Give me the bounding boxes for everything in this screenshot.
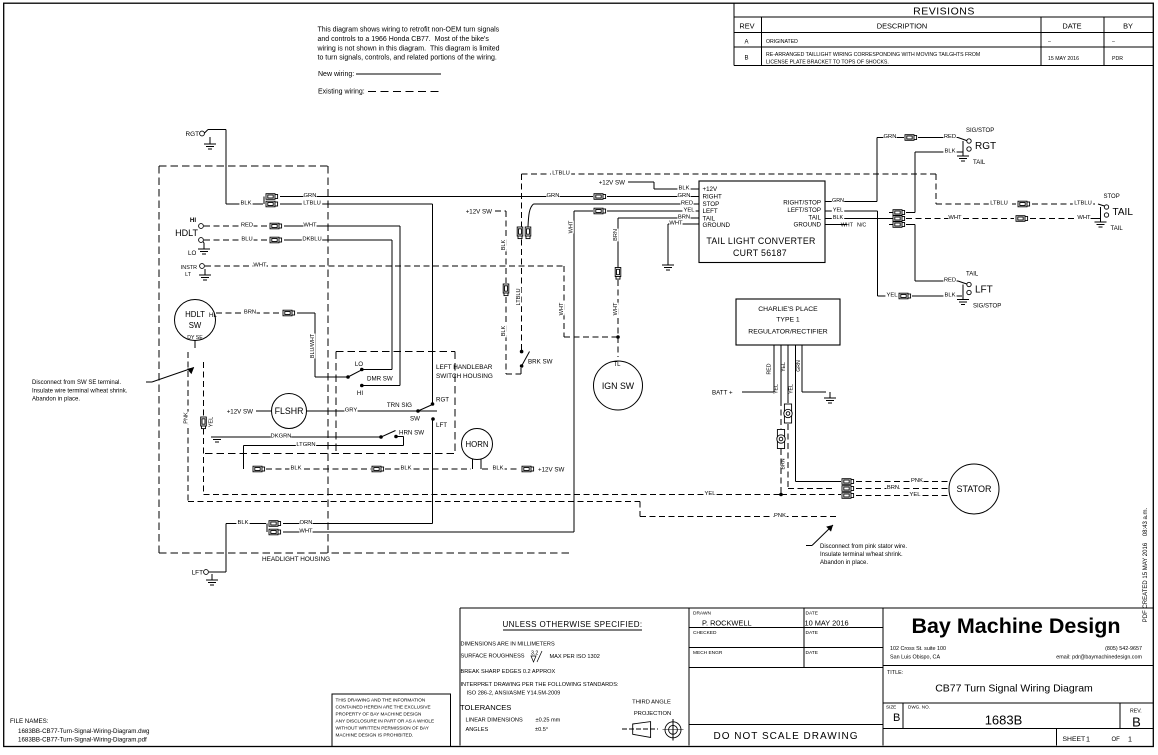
svg-text:SIG/STOP: SIG/STOP xyxy=(973,304,1001,310)
svg-text:LT: LT xyxy=(185,272,192,278)
svg-text:BLK: BLK xyxy=(833,215,844,221)
svg-text:Disconnect from pink stator wi: Disconnect from pink stator wire. xyxy=(820,544,907,550)
svg-text:DMR SW: DMR SW xyxy=(367,376,393,383)
svg-text:REGULATOR/RECTIFIER: REGULATOR/RECTIFIER xyxy=(748,329,828,336)
svg-text:CHARLIE'S PLACE: CHARLIE'S PLACE xyxy=(758,306,818,313)
svg-text:BRN: BRN xyxy=(887,485,899,491)
svg-text:MECH ENGR: MECH ENGR xyxy=(693,650,723,656)
svg-text:DATE: DATE xyxy=(806,650,818,656)
svg-text:BRN: BRN xyxy=(781,458,787,469)
svg-text:REV: REV xyxy=(739,21,754,30)
svg-text:RED: RED xyxy=(944,278,956,284)
svg-text:BATT +: BATT + xyxy=(712,390,733,397)
svg-text:TL: TL xyxy=(613,362,621,368)
svg-text:PNK: PNK xyxy=(183,412,189,424)
svg-text:BLK: BLK xyxy=(401,466,412,472)
svg-text:GRN: GRN xyxy=(796,360,802,372)
svg-text:HI: HI xyxy=(190,217,196,224)
svg-text:N/C: N/C xyxy=(857,223,866,229)
svg-text:10 MAY 2016: 10 MAY 2016 xyxy=(805,619,849,628)
svg-text:This diagram shows wiring to r: This diagram shows wiring to retrofit no… xyxy=(318,27,500,34)
svg-text:1683B: 1683B xyxy=(985,713,1023,728)
svg-text:and controls to a 1966 Honda C: and controls to a 1966 Honda CB77. Most … xyxy=(318,36,490,43)
svg-text:P. ROCKWELL: P. ROCKWELL xyxy=(702,619,752,628)
svg-text:±0.25 mm: ±0.25 mm xyxy=(536,718,561,724)
svg-text:REVISIONS: REVISIONS xyxy=(913,6,975,18)
svg-text:YEL: YEL xyxy=(774,384,780,394)
svg-text:TAIL: TAIL xyxy=(973,160,986,166)
svg-text:+12V SW: +12V SW xyxy=(538,467,564,474)
svg-text:LTGRN: LTGRN xyxy=(296,442,315,448)
svg-text:YEL: YEL xyxy=(910,492,922,498)
svg-text:TRN SIG: TRN SIG xyxy=(387,402,412,409)
svg-text:GROUND: GROUND xyxy=(794,222,822,229)
svg-text:WHT: WHT xyxy=(299,529,313,535)
svg-text:STOP: STOP xyxy=(703,201,720,208)
svg-text:ANGLES: ANGLES xyxy=(466,727,489,733)
svg-text:DY SE: DY SE xyxy=(187,335,203,341)
svg-text:MACHINE DESIGN IS PROHIBITED.: MACHINE DESIGN IS PROHIBITED. xyxy=(336,733,414,738)
svg-text:DKBLU: DKBLU xyxy=(302,237,321,243)
svg-text:DRAWN: DRAWN xyxy=(693,611,711,617)
svg-text:WHT: WHT xyxy=(613,302,619,315)
svg-text:HL: HL xyxy=(209,313,217,319)
svg-text:+12V: +12V xyxy=(703,186,718,193)
svg-text:YEL: YEL xyxy=(781,362,787,372)
svg-text:1: 1 xyxy=(1128,735,1132,744)
svg-text:WHT: WHT xyxy=(948,215,962,221)
svg-text:RED: RED xyxy=(241,223,253,229)
svg-text:+12V SW: +12V SW xyxy=(466,209,492,216)
svg-text:YEL: YEL xyxy=(684,208,696,214)
svg-text:CONTAINED HEREIN ARE THE EXCLU: CONTAINED HEREIN ARE THE EXCLUSIVE xyxy=(336,705,431,710)
svg-text:LFT: LFT xyxy=(975,285,993,296)
svg-text:THIS DRAWING AND THE INFORMATI: THIS DRAWING AND THE INFORMATION xyxy=(336,698,426,703)
svg-text:RED: RED xyxy=(681,201,693,207)
svg-text:IGN SW: IGN SW xyxy=(602,381,635,391)
svg-text:ISO 286-2, ANSI/ASME Y14.5M-20: ISO 286-2, ANSI/ASME Y14.5M-2009 xyxy=(467,691,561,697)
svg-text:SURFACE ROUGHNESS: SURFACE ROUGHNESS xyxy=(461,654,525,660)
svg-text:GRN: GRN xyxy=(678,193,691,199)
svg-text:CB77 Turn Signal Wiring Diagra: CB77 Turn Signal Wiring Diagram xyxy=(935,683,1093,695)
svg-text:B: B xyxy=(893,712,900,724)
svg-text:PROPERTY OF BAY MACHINE DESIGN: PROPERTY OF BAY MACHINE DESIGN xyxy=(336,712,422,717)
svg-text:+12V SW: +12V SW xyxy=(599,180,625,187)
svg-text:LTBLU: LTBLU xyxy=(990,201,1008,207)
svg-text:LEFT/STOP: LEFT/STOP xyxy=(787,207,821,214)
svg-text:1683BB-CB77-Turn-Signal-Wiring: 1683BB-CB77-Turn-Signal-Wiring-Diagram.p… xyxy=(18,737,147,744)
svg-text:DESCRIPTION: DESCRIPTION xyxy=(877,21,928,30)
svg-text:LFT: LFT xyxy=(436,422,447,429)
svg-text:1683BB-CB77-Turn-Signal-Wiring: 1683BB-CB77-Turn-Signal-Wiring-Diagram.d… xyxy=(18,728,150,735)
svg-text:BLK: BLK xyxy=(501,239,507,250)
svg-text:New wiring:: New wiring: xyxy=(318,71,354,78)
svg-text:BLK: BLK xyxy=(501,325,507,336)
svg-text:15 MAY 2016: 15 MAY 2016 xyxy=(1048,56,1079,62)
svg-text:FILE NAMES:: FILE NAMES: xyxy=(10,718,49,725)
svg-text:B: B xyxy=(1132,715,1141,730)
svg-text:TAIL: TAIL xyxy=(966,272,979,278)
svg-text:(805) 542-9657: (805) 542-9657 xyxy=(1105,646,1142,652)
svg-text:PDR: PDR xyxy=(1112,56,1123,62)
svg-text:WHT: WHT xyxy=(669,221,683,227)
svg-text:BLK: BLK xyxy=(241,201,252,207)
svg-text:WHT: WHT xyxy=(1077,215,1091,221)
svg-text:Disconnect from SW SE terminal: Disconnect from SW SE terminal. xyxy=(32,380,121,386)
svg-text:HRN SW: HRN SW xyxy=(399,430,424,437)
svg-text:STOP: STOP xyxy=(1104,194,1120,200)
svg-text:–: – xyxy=(1048,39,1051,45)
svg-text:HEADLIGHT HOUSING: HEADLIGHT HOUSING xyxy=(262,556,330,563)
svg-text:TAIL LIGHT CONVERTER: TAIL LIGHT CONVERTER xyxy=(706,236,815,246)
svg-text:–: – xyxy=(1112,39,1115,45)
svg-text:±0.5°: ±0.5° xyxy=(535,727,548,733)
svg-text:RE-ARRANGED TAILLIGHT WIRING C: RE-ARRANGED TAILLIGHT WIRING CORRESPONDI… xyxy=(766,52,980,58)
svg-text:WHT: WHT xyxy=(303,223,317,229)
svg-text:YEL: YEL xyxy=(789,384,795,394)
svg-text:LINEAR DIMENSIONS: LINEAR DIMENSIONS xyxy=(466,718,523,724)
svg-text:BREAK SHARP EDGES 0.2 APPROX: BREAK SHARP EDGES 0.2 APPROX xyxy=(461,669,556,675)
svg-text:HORN: HORN xyxy=(466,440,489,449)
svg-text:DKGRN: DKGRN xyxy=(271,434,292,440)
svg-text:SWITCH HOUSING: SWITCH HOUSING xyxy=(436,373,493,380)
svg-text:LEFT: LEFT xyxy=(703,208,718,215)
svg-text:PDF CREATED 15 MAY 2016 08:: PDF CREATED 15 MAY 2016 08:43 a.m. xyxy=(1143,507,1149,622)
svg-text:GRN: GRN xyxy=(304,193,317,199)
svg-text:PNK: PNK xyxy=(774,513,786,519)
svg-text:BLK: BLK xyxy=(945,293,956,299)
svg-text:1: 1 xyxy=(1086,735,1090,744)
svg-text:PROJECTION: PROJECTION xyxy=(634,711,671,717)
svg-text:BRK SW: BRK SW xyxy=(528,359,553,366)
svg-text:TAIL: TAIL xyxy=(808,215,821,222)
svg-text:CURT 56187: CURT 56187 xyxy=(733,248,787,258)
svg-text:ANY DISCLOSURE IN PART OR AS A: ANY DISCLOSURE IN PART OR AS A WHOLE xyxy=(336,719,435,724)
svg-text:YEL: YEL xyxy=(208,417,214,428)
svg-text:RED: RED xyxy=(767,363,773,374)
svg-text:YEL: YEL xyxy=(705,491,717,497)
svg-text:DATE: DATE xyxy=(806,611,818,617)
svg-text:MAX PER ISO 1302: MAX PER ISO 1302 xyxy=(550,654,600,660)
svg-text:102 Cross St. suite 100: 102 Cross St. suite 100 xyxy=(890,646,946,652)
svg-text:RGT: RGT xyxy=(975,141,996,152)
svg-text:FLSHR: FLSHR xyxy=(275,406,304,416)
svg-text:TAIL: TAIL xyxy=(1113,207,1134,218)
svg-text:WHT: WHT xyxy=(253,263,267,269)
svg-text:ORN: ORN xyxy=(300,520,313,526)
svg-text:WHT: WHT xyxy=(841,223,854,229)
svg-text:Insulate wire terminal w/heat: Insulate wire terminal w/heat shrink. xyxy=(32,389,128,395)
svg-text:GRN: GRN xyxy=(832,198,844,204)
svg-text:INSTR: INSTR xyxy=(181,265,197,271)
svg-text:Insulate terminal w/heat shrin: Insulate terminal w/heat shrink. xyxy=(820,552,903,558)
svg-text:LTBLU: LTBLU xyxy=(303,201,321,207)
svg-text:Abandon in place.: Abandon in place. xyxy=(820,560,868,566)
svg-text:SHEET: SHEET xyxy=(1063,736,1086,743)
svg-text:SIG/STOP: SIG/STOP xyxy=(966,128,994,134)
svg-text:GRN: GRN xyxy=(547,193,560,199)
svg-text:STATOR: STATOR xyxy=(956,484,992,494)
svg-text:DO NOT SCALE DRAWING: DO NOT SCALE DRAWING xyxy=(713,731,858,742)
svg-text:TITLE:: TITLE: xyxy=(887,670,903,676)
svg-text:YEL: YEL xyxy=(833,208,843,214)
svg-text:ORIGINATED: ORIGINATED xyxy=(766,39,798,45)
svg-text:GROUND: GROUND xyxy=(703,222,731,229)
svg-text:LTBLU: LTBLU xyxy=(552,171,570,177)
svg-text:RIGHT: RIGHT xyxy=(703,194,722,201)
svg-text:PNK: PNK xyxy=(911,478,923,484)
svg-text:LFT: LFT xyxy=(192,570,203,577)
svg-text:BLK: BLK xyxy=(238,520,249,526)
svg-text:Abandon in place.: Abandon in place. xyxy=(32,397,80,403)
svg-text:INTERPRET DRAWING PER THE FOLL: INTERPRET DRAWING PER THE FOLLOWING STAN… xyxy=(461,682,619,688)
svg-text:HDLT: HDLT xyxy=(185,310,205,319)
svg-text:B: B xyxy=(744,56,748,62)
svg-text:LO: LO xyxy=(355,361,363,368)
svg-text:RED: RED xyxy=(944,134,956,140)
svg-text:LO: LO xyxy=(188,250,196,257)
svg-text:BLK: BLK xyxy=(493,466,504,472)
svg-text:TYPE 1: TYPE 1 xyxy=(776,317,800,324)
svg-text:SIZE: SIZE xyxy=(886,705,896,710)
svg-text:DATE: DATE xyxy=(1062,21,1081,30)
svg-text:UNLESS OTHERWISE SPECIFIED:: UNLESS OTHERWISE SPECIFIED: xyxy=(502,620,642,629)
svg-text:DIMENSIONS ARE IN MILLIMETERS: DIMENSIONS ARE IN MILLIMETERS xyxy=(461,642,555,648)
svg-text:DWG. NO.: DWG. NO. xyxy=(908,705,930,710)
svg-text:3.2: 3.2 xyxy=(531,651,538,657)
svg-text:BLK: BLK xyxy=(679,186,690,192)
svg-text:BRN: BRN xyxy=(244,310,256,316)
svg-text:RGT: RGT xyxy=(186,131,200,138)
svg-text:LEFT HANDLEBAR: LEFT HANDLEBAR xyxy=(436,364,493,371)
svg-text:wiring is not shown in this di: wiring is not shown in this diagram. Thi… xyxy=(317,45,500,52)
svg-text:BLK: BLK xyxy=(945,149,956,155)
svg-text:WHT: WHT xyxy=(568,220,574,233)
svg-text:email: pdr@baymachinedesign.co: email: pdr@baymachinedesign.com xyxy=(1056,655,1142,661)
svg-text:to turn signals, controls, and: to turn signals, controls, and related p… xyxy=(318,55,497,62)
svg-text:GRY: GRY xyxy=(345,408,358,414)
svg-text:TOLERANCES: TOLERANCES xyxy=(460,703,511,712)
svg-text:BLK: BLK xyxy=(291,466,302,472)
svg-text:LICENSE PLATE BRACKET TO TOPS: LICENSE PLATE BRACKET TO TOPS OF SHOCKS. xyxy=(766,60,889,66)
svg-text:Existing wiring:: Existing wiring: xyxy=(318,89,365,96)
svg-text:BRN: BRN xyxy=(613,229,619,241)
svg-text:LTBLU: LTBLU xyxy=(516,289,522,306)
svg-text:YEL: YEL xyxy=(887,293,899,299)
svg-text:HDLT: HDLT xyxy=(175,228,198,238)
svg-text:WITHOUT WRITTEN PERMISSION OF: WITHOUT WRITTEN PERMISSION OF BAY xyxy=(336,726,430,731)
svg-text:RGT: RGT xyxy=(436,397,449,404)
svg-text:RIGHT/STOP: RIGHT/STOP xyxy=(783,200,821,207)
svg-text:THIRD ANGLE: THIRD ANGLE xyxy=(632,700,671,706)
svg-text:+12V SW: +12V SW xyxy=(227,409,253,416)
svg-text:CHECKED: CHECKED xyxy=(693,630,717,636)
svg-text:LTBLU: LTBLU xyxy=(1074,201,1092,207)
svg-text:Bay Machine Design: Bay Machine Design xyxy=(911,614,1120,638)
svg-text:DATE: DATE xyxy=(806,630,818,636)
svg-text:San Luis Obispo, CA: San Luis Obispo, CA xyxy=(890,655,940,661)
svg-text:SW: SW xyxy=(410,416,420,423)
svg-text:A: A xyxy=(744,40,748,46)
svg-text:BY: BY xyxy=(1123,21,1133,30)
svg-text:BLU: BLU xyxy=(241,237,252,243)
svg-text:SW: SW xyxy=(189,321,202,330)
svg-text:GRN: GRN xyxy=(884,134,897,140)
svg-text:TAIL: TAIL xyxy=(1111,226,1124,232)
svg-text:WHT: WHT xyxy=(559,302,565,315)
svg-text:OF: OF xyxy=(1112,737,1121,743)
svg-text:BLU/WHT: BLU/WHT xyxy=(310,333,316,358)
svg-text:HI: HI xyxy=(357,390,363,397)
